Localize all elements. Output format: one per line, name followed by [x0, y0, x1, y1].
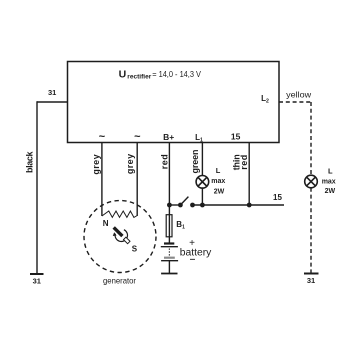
svg-text:31: 31	[307, 276, 315, 285]
generator dashed circle G1	[84, 201, 156, 273]
svg-text:S: S	[132, 244, 138, 253]
generator winding (zigzag resistor)	[102, 211, 137, 217]
fuse B1	[166, 215, 172, 237]
svg-text:2W: 2W	[325, 188, 336, 195]
svg-text:~: ~	[99, 131, 106, 143]
battery plate 4 (long thin)	[161, 260, 178, 262]
rotation arrow arc	[115, 230, 127, 242]
junction dot (thin red)	[247, 203, 252, 208]
svg-text:red: red	[159, 154, 169, 169]
svg-text:generator: generator	[103, 276, 136, 286]
svg-text:N: N	[103, 219, 109, 228]
wire red (B+)	[168, 143, 170, 244]
ground left	[30, 273, 44, 275]
svg-text:yellow: yellow	[286, 90, 312, 100]
battery plate 1 (short thick +)	[164, 242, 174, 244]
svg-text:31: 31	[48, 88, 56, 97]
svg-text:B+: B+	[163, 132, 174, 142]
junction dot (switch right contact)	[190, 203, 195, 208]
svg-text:= 14,0 - 14,3 V: = 14,0 - 14,3 V	[152, 69, 201, 79]
svg-text:L: L	[328, 166, 333, 175]
switch blade S1	[180, 197, 188, 205]
svg-text:max: max	[211, 178, 225, 185]
svg-text:15: 15	[273, 193, 282, 202]
wire dashed lamp to ground	[310, 188, 312, 274]
rotation arrowhead	[113, 232, 117, 236]
rectifier box U1	[68, 62, 280, 143]
ground battery	[161, 273, 177, 275]
wire green lower (lamp to bus)	[201, 188, 203, 205]
junction dot (green/lamp)	[200, 203, 205, 208]
junction dot (red/B+)	[167, 203, 172, 208]
svg-text:max: max	[322, 179, 336, 186]
svg-text:black: black	[25, 150, 35, 172]
svg-text:battery: battery	[180, 247, 212, 258]
lamp L (right, circle-X)	[305, 175, 318, 188]
wire thin red (15)	[248, 143, 250, 206]
magnet needle (white half, S)	[124, 237, 131, 244]
svg-text:U: U	[119, 68, 127, 80]
svg-text:~: ~	[134, 131, 141, 143]
wire box to 31 (horizontal)	[37, 101, 68, 103]
battery dotted link	[168, 249, 170, 256]
battery plate 3 (short thick grey)	[164, 257, 175, 259]
ground right	[304, 273, 319, 275]
wire black (vertical)	[36, 101, 38, 274]
wire grey 2	[136, 143, 138, 217]
svg-text:grey: grey	[91, 154, 101, 174]
svg-text:rectifier: rectifier	[127, 73, 151, 80]
svg-text:red: red	[239, 155, 249, 170]
bus wire 15 (right part)	[193, 204, 285, 206]
wire yellow dashed (horizontal)	[279, 101, 311, 103]
magnet needle (black half, N)	[114, 227, 123, 236]
wire grey 1	[101, 143, 103, 217]
wire battery to ground	[168, 261, 170, 274]
wire yellow dashed (vertical to lamp)	[310, 102, 312, 175]
svg-text:L: L	[216, 166, 221, 175]
svg-text:31: 31	[33, 276, 41, 285]
bus wire 15 (left part)	[169, 204, 180, 206]
wire green upper (L1 to lamp)	[201, 143, 203, 177]
svg-text:15: 15	[231, 132, 241, 142]
lamp L (left, circle-X)	[196, 176, 209, 189]
svg-text:grey: grey	[125, 154, 135, 174]
svg-text:2W: 2W	[214, 188, 225, 195]
junction dot (switch left contact)	[178, 203, 183, 208]
svg-text:green: green	[190, 150, 200, 174]
battery plate 2 (long thin)	[161, 246, 178, 248]
